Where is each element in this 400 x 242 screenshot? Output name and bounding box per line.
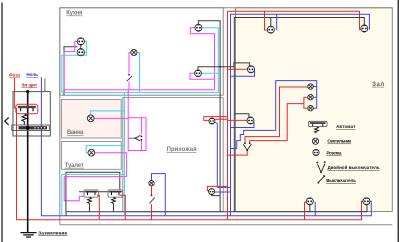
wire: blue from hallway lamp over to neutral bus (152, 174, 166, 216)
wire: black stub hall bottom socket 1 (309, 205, 311, 212)
wire: blue loop from hall left socket B (231, 122, 254, 128)
wire: black PE bus along hallway bottom into hall (66, 205, 367, 216)
wire: blue from hallway bottom-right socket (215, 191, 231, 193)
socket hall left B (247, 117, 254, 124)
breaker hallway A1 (84, 190, 99, 204)
double switch hall U1 (243, 142, 251, 151)
svg-text:Фаза: Фаза (9, 72, 21, 77)
wire: cyan bathroom lamp feed (91, 111, 125, 115)
lamp bathroom (87, 115, 94, 122)
lamp hall L1 (308, 84, 313, 89)
wire: black service drop through panel to ground (27, 92, 29, 233)
double switch hallway U2 (129, 135, 143, 141)
room fill: bathroom (Ванна) (61, 100, 121, 138)
legend socket symbol (313, 149, 319, 155)
wire: red from hall switch common down to corridor (228, 151, 248, 156)
wire: red main down left side and bottom bus (17, 108, 364, 220)
ground symbol (Заземление) (21, 233, 37, 237)
wire: cyan channel under toilet (62, 173, 125, 175)
electrical panel box (13, 92, 50, 136)
breaker hallway A2 (108, 190, 123, 204)
wire: neutral blue riser and bottom bus (41, 77, 371, 216)
svg-text:Прихожая: Прихожая (167, 147, 197, 153)
apartment left wall (59, 8, 61, 225)
svg-text:Туалет: Туалет (65, 163, 84, 169)
wire: cyan hook kitchen right socket 2 (202, 72, 219, 74)
wire: black loop kitchen right socket 1 down the wall (198, 21, 220, 212)
svg-text:Двойной выключатель: Двойной выключатель (328, 165, 380, 170)
wire: red switched line 1 to hall lamp 1 (245, 87, 308, 143)
switch kitchen S1 (127, 76, 132, 81)
arrow glyph on left edge (5, 118, 9, 125)
svg-text:Кухня: Кухня (66, 11, 83, 17)
wire: black stub to hall top socket 1 (270, 18, 272, 27)
socket hall bottom 1 (306, 198, 313, 205)
svg-text:Зал: Зал (372, 82, 384, 88)
wire: magenta hook kitchen right socket 2 (190, 73, 215, 79)
wire: black from panel to kitchen double socket (64, 47, 77, 95)
wire: cyan from kitchen sockets down to neutral bus (62, 41, 87, 215)
wire: black zigzag drops to PE bus (90, 204, 114, 212)
socket kitchen right 2 (195, 70, 202, 77)
wire: blue stubs at lamps (313, 87, 317, 109)
wire: magenta bathroom lamp to hallway switch loop (94, 90, 146, 151)
wire: blue from hallway right socket (215, 122, 231, 187)
wire: corridor black PE riser along hall wall to top socket (234, 18, 364, 212)
legend switch symbol (318, 175, 325, 182)
wire: red to hall left socket B (228, 119, 248, 121)
wire: magenta stubs to hallway double switch dots (140, 118, 142, 151)
wire: phase red riser from label to panel breaker (14, 78, 15, 109)
room fill: hall (Зал) (236, 8, 393, 212)
legend lamp symbol (312, 138, 318, 144)
wire: cyan loop kitchen right socket 1 into wall gap (62, 28, 219, 216)
socket hall top 2 (361, 25, 368, 32)
wire: red to hall left socket A (228, 68, 248, 70)
wire: black from kitchen right socket 2 to hall socket A (198, 63, 249, 70)
switch hallway S2 (149, 197, 154, 203)
apartment bottom wall (60, 224, 393, 226)
socket kitchen double B (77, 49, 84, 56)
wire: red from breaker A1 to phase bus (97, 195, 99, 219)
wire: corridor red riser to hall ceiling (228, 11, 362, 219)
wire: red from breaker A2 to phase bus (120, 195, 126, 219)
room: toilet (Туалет) (61, 142, 121, 170)
room: kitchen (Кухня) (60, 8, 223, 95)
socket kitchen right 1 (195, 24, 202, 31)
svg-text:Светильник: Светильник (327, 139, 352, 144)
wire: gray stub at panel top right (44, 79, 46, 92)
wire: cyan from kitchen lamp to right (137, 53, 140, 93)
socket hallway bottom-right (209, 189, 215, 195)
svg-text:Розетка: Розетка (327, 151, 343, 156)
svg-text:Ванна: Ванна (67, 130, 84, 136)
wire: blue loop from hall left socket A (231, 71, 255, 77)
socket hall bottom 2 (363, 198, 370, 205)
socket hall left A (248, 66, 255, 73)
svg-text:Автомат: Автомат (336, 124, 356, 129)
socket hall top 1 (267, 26, 274, 33)
lamp toilet (88, 149, 95, 156)
svg-text:Ноль: Ноль (27, 72, 39, 77)
lamp hall L2 (308, 95, 313, 100)
wire: black to hall left socket B (234, 114, 249, 118)
wire: cyan toilet lamp feed (86, 146, 124, 153)
wire: corridor blue riser to hall ceiling (231, 14, 370, 216)
wire: black link between hallway breakers (79, 191, 122, 193)
apartment top wall (60, 7, 393, 9)
svg-text:Заземление: Заземление (38, 230, 67, 236)
wire: magenta kitchen bottom bus (64, 89, 214, 91)
socket hallway right (209, 118, 215, 124)
lamp hallway (149, 181, 154, 186)
legend breaker symbol (309, 121, 328, 126)
lamp hall L3 (308, 106, 313, 111)
wire: red hook to hall top socket 1 (265, 11, 268, 30)
wire: magenta loop kitchen right socket 1 down to hallway switch loop (190, 28, 214, 90)
wire: magenta lamp drop to kitchen switch (129, 53, 131, 90)
wire: red stub hall bottom socket 1 (305, 202, 307, 220)
lamp kitchen L1 (131, 49, 137, 55)
wire: red loop to hallway bottom-right socket (207, 186, 227, 190)
wire: red switched line 2 to hall lamps 2,3 (250, 97, 308, 143)
wire: black link between kitchen double sockets (80, 45, 82, 49)
wire: red loop to hallway right socket (204, 117, 227, 121)
wire: magenta from kitchen sockets down to hallway breakers (64, 41, 84, 200)
svg-text:Эл щит: Эл щит (22, 82, 38, 87)
breaker main (Автомат) in panel (16, 104, 38, 125)
wire: blue stub hall bottom socket 1 (314, 202, 316, 216)
border frame (1, 3, 3, 242)
terminal block in panel (12, 125, 50, 131)
svg-text:Выключатель: Выключатель (326, 178, 356, 183)
wire: black channel under toilet to breaker (66, 172, 120, 212)
room: hallway (Прихожая) (123, 98, 223, 212)
wire: blue staircase to hall lamps (231, 81, 317, 149)
wire: blue hook to hall top socket 1 (276, 14, 278, 30)
legend double switch symbol (318, 164, 325, 173)
wire: magenta channel under toilet (64, 176, 126, 178)
socket kitchen double A (77, 38, 84, 45)
legend (309, 121, 380, 183)
wire: red hallway lamp drop through switch to phase bus (151, 186, 153, 220)
wire: magenta toilet lamp feed (95, 153, 127, 177)
